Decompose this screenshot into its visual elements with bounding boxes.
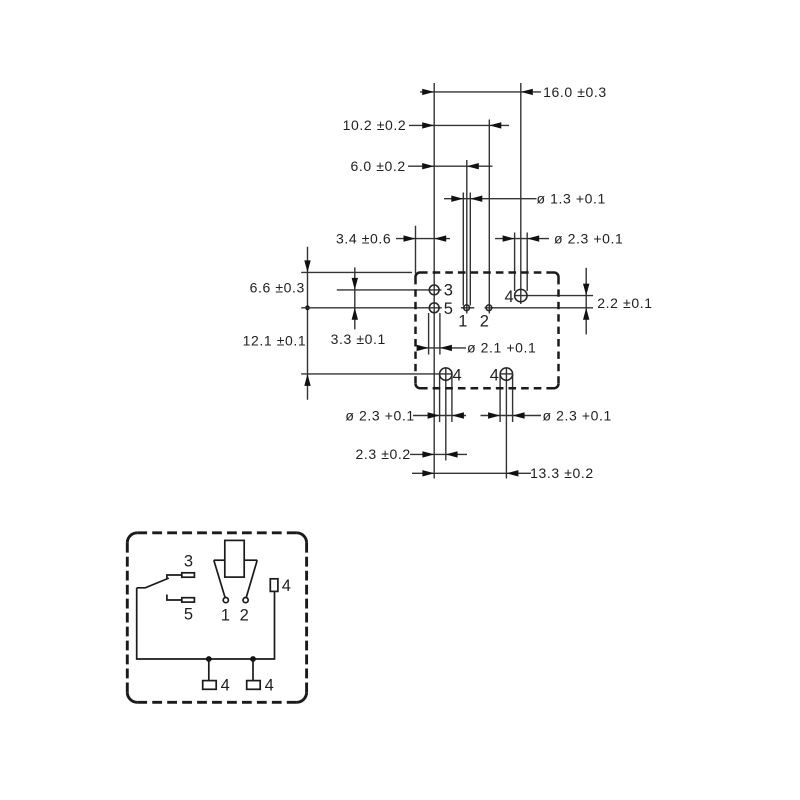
svg-text:4: 4 [490,366,499,384]
dimension 3.4 line [396,235,450,241]
dimension 6.6/12.1 line [304,247,310,400]
svg-text:ø 2.3 +0.1: ø 2.3 +0.1 [543,407,612,423]
junction dot A [206,656,212,662]
hole 4 top [515,289,527,301]
coil right shoulder wire [244,559,257,561]
dimension dia 2.3 bottom-left line [413,412,466,418]
extension line pad column 1 [466,160,468,314]
svg-text:ø 2.3 +0.1: ø 2.3 +0.1 [345,407,414,423]
hole 2 [486,305,492,311]
dimension 13.3 line [412,470,531,476]
hole 1 centerline [461,307,474,309]
svg-text:6.0 ±0.2: 6.0 ±0.2 [351,158,406,174]
extension line case left edge [415,226,417,274]
stub wire to terminal 4 bottom-right [252,659,254,681]
extension line hole4BR left edge [499,374,501,422]
contact 3 lead wire [167,575,182,579]
case outline (dashed) [416,273,559,389]
extension line hole1 right edge [469,193,471,306]
terminal 4 right [270,579,278,592]
svg-text:ø 1.3 +0.1: ø 1.3 +0.1 [537,191,606,207]
svg-text:13.3 ±0.2: 13.3 ±0.2 [530,465,594,481]
dimension 10.2 line [409,122,509,128]
svg-text:4: 4 [221,677,230,695]
svg-text:4: 4 [282,577,291,595]
svg-text:10.2 ±0.2: 10.2 ±0.2 [343,117,407,133]
hole 2 centerline [485,307,594,309]
hole 4 top centerline [514,295,593,297]
coil K1 [225,540,244,577]
dimension dia 1.3 line [444,196,537,202]
svg-text:3.3 ±0.1: 3.3 ±0.1 [331,331,386,347]
coil left shoulder wire [214,559,225,561]
hole 1 [464,305,470,311]
terminal 4 bottom-right [247,681,261,690]
armature wire [137,578,169,588]
hole 3 centerline [337,289,442,291]
hole 5 [429,303,439,313]
holes 4 bottom centerline [301,373,452,375]
svg-text:6.6 ±0.3: 6.6 ±0.3 [250,280,305,296]
svg-text:3.4 ±0.6: 3.4 ±0.6 [336,230,391,246]
contact 3 terminal [182,573,195,577]
dimension 2.3 line [410,451,467,457]
junction dot B [250,656,256,662]
extension line hole4T left edge [514,233,516,292]
svg-text:2.3 ±0.2: 2.3 ±0.2 [356,446,411,462]
svg-text:3: 3 [444,282,453,300]
extension line pad column 4 top [520,83,522,304]
extension line hole5 right edge [439,313,441,355]
extension line pad column 4BR [505,368,507,479]
dimension dia 2.3 bottom-right line [481,412,542,418]
hole 4 bottom-right [500,368,512,380]
extension line case top edge [301,271,412,273]
svg-text:16.0 ±0.3: 16.0 ±0.3 [543,84,607,100]
pin 2 terminal [243,598,248,603]
terminal 4 bottom-left [203,681,217,690]
dimension 3.3 line [352,267,358,329]
hole 3 [429,285,439,295]
contact 5 terminal [182,598,195,602]
extension line hole5 left edge [428,313,430,355]
extension line pad column 3/5 [433,83,435,479]
svg-text:3: 3 [184,552,193,570]
svg-text:2: 2 [240,606,249,624]
svg-text:ø 2.1 +0.1: ø 2.1 +0.1 [467,340,536,356]
holes 5 centerline [301,307,442,309]
hole 4BR centerline [500,373,513,375]
extension line pad column 4BL [445,368,447,461]
svg-text:1: 1 [458,313,467,331]
extension line hole4BR right edge [512,374,514,422]
svg-text:2.2 ±0.1: 2.2 ±0.1 [597,295,652,311]
common wire [137,588,275,659]
contact 5 lead wire [167,595,182,601]
hole 4 bottom-left [440,368,452,380]
extension line hole4T right edge [526,233,528,292]
coil lead wire to pin 2 [246,560,257,597]
dimension dia 2.3 top line [495,235,549,241]
coil lead wire to pin 1 [214,560,225,597]
pin 1 terminal [223,598,228,603]
svg-text:4: 4 [505,288,514,306]
svg-text:ø 2.3 +0.1: ø 2.3 +0.1 [554,230,623,246]
extension line hole4BL right edge [451,374,453,422]
extension line pad column 2 [488,120,490,314]
svg-text:12.1 ±0.1: 12.1 ±0.1 [243,332,307,348]
svg-text:5: 5 [184,606,193,624]
dimension 2.2 line [583,268,589,335]
svg-text:4: 4 [265,677,274,695]
extension line hole4BL left edge [439,374,441,422]
dimension 16.0 line [420,89,541,95]
dimension 6.0 line [408,163,493,169]
schematic border (dashed) [127,533,306,703]
svg-text:1: 1 [221,606,230,624]
stub wire to terminal 4 bottom-left [208,659,210,681]
extension line hole1 left edge [462,193,464,306]
svg-text:5: 5 [444,300,453,318]
dimension dia 2.1 line [417,345,466,351]
svg-text:4: 4 [453,366,462,384]
svg-text:2: 2 [480,313,489,331]
